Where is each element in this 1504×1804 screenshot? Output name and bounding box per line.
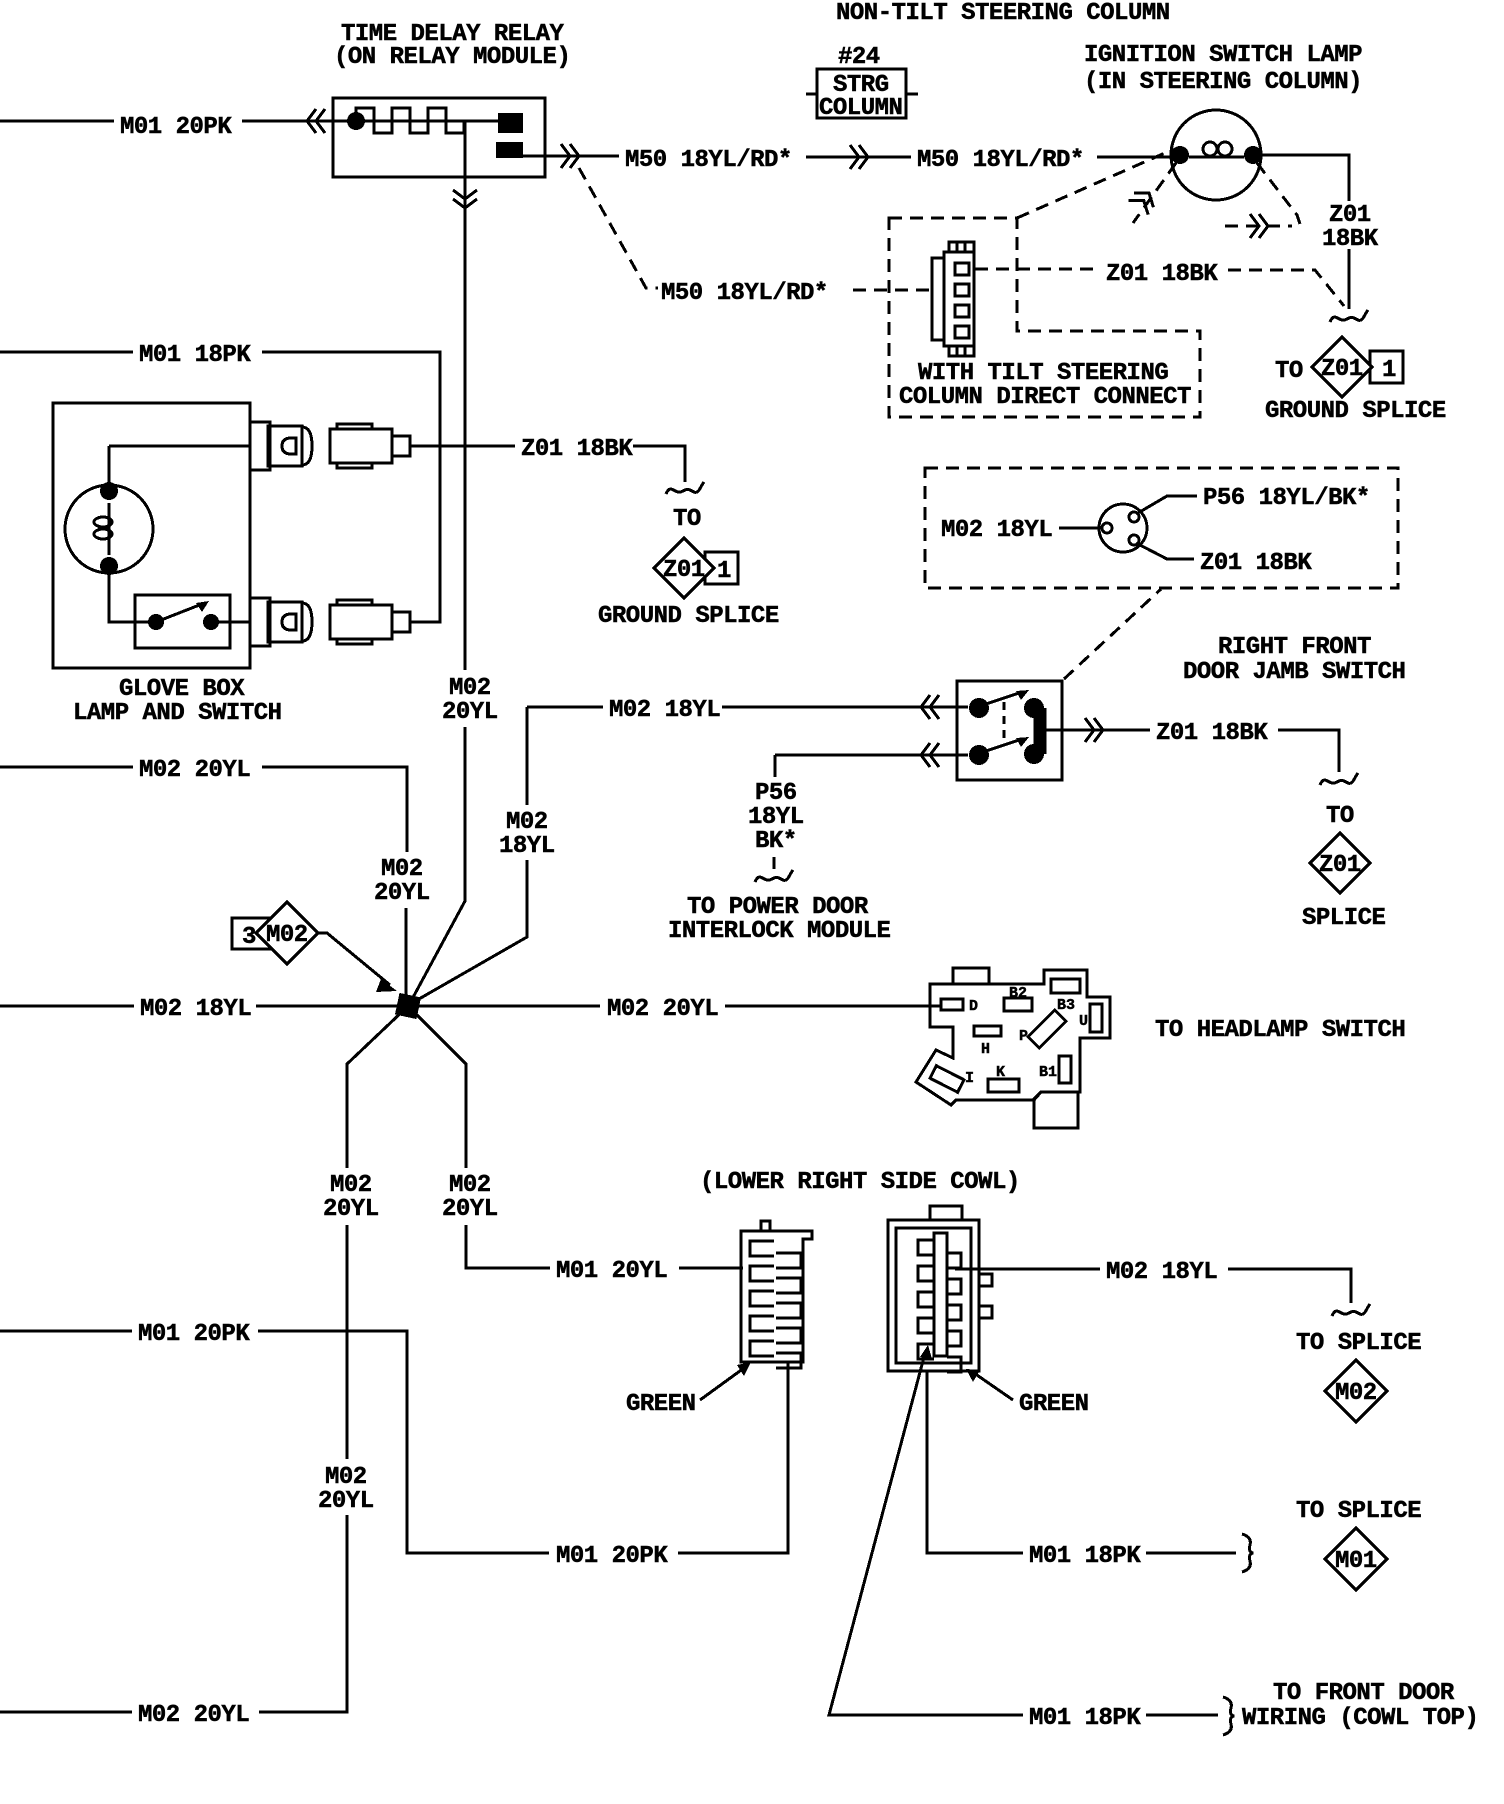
svg-text:M50 18YL/RD*: M50 18YL/RD*: [661, 280, 828, 307]
svg-text:B3: B3: [1057, 997, 1075, 1014]
svg-text:B1: B1: [1039, 1064, 1057, 1081]
svg-text:WITH TILT STEERING: WITH TILT STEERING: [918, 360, 1168, 387]
svg-text:3: 3: [242, 924, 256, 951]
svg-text:M02: M02: [449, 675, 491, 702]
svg-text:M02 18YL: M02 18YL: [609, 697, 720, 724]
svg-text:M01 18PK: M01 18PK: [1029, 1543, 1141, 1570]
svg-text:(IN STEERING COLUMN): (IN STEERING COLUMN): [1084, 69, 1362, 96]
svg-text:1: 1: [1382, 357, 1396, 384]
svg-text:20YL: 20YL: [442, 1196, 498, 1223]
svg-text:I: I: [965, 1070, 974, 1087]
svg-text:Z01 18BK: Z01 18BK: [1200, 550, 1312, 577]
svg-text:M02: M02: [266, 922, 308, 949]
svg-text:(LOWER RIGHT SIDE COWL): (LOWER RIGHT SIDE COWL): [700, 1169, 1020, 1196]
svg-text:Z01: Z01: [663, 557, 705, 584]
svg-text:18BK: 18BK: [1322, 226, 1379, 253]
svg-text:GROUND SPLICE: GROUND SPLICE: [1265, 398, 1446, 425]
svg-text:M01 20PK: M01 20PK: [120, 114, 232, 141]
svg-text:TO: TO: [1275, 358, 1303, 385]
svg-text:M01: M01: [1335, 1548, 1377, 1575]
svg-text:TO SPLICE: TO SPLICE: [1296, 1330, 1421, 1357]
svg-text:M02 20YL: M02 20YL: [138, 1702, 249, 1729]
svg-text:TO POWER DOOR: TO POWER DOOR: [687, 894, 869, 921]
svg-text:M02 18YL: M02 18YL: [140, 996, 251, 1023]
svg-text:P56: P56: [755, 780, 797, 807]
svg-text:M50 18YL/RD*: M50 18YL/RD*: [917, 147, 1084, 174]
svg-text:#24: #24: [838, 44, 880, 71]
svg-text:GLOVE BOX: GLOVE BOX: [119, 676, 245, 703]
svg-text:RIGHT FRONT: RIGHT FRONT: [1218, 634, 1371, 661]
svg-text:U: U: [1079, 1013, 1088, 1030]
svg-text:D: D: [969, 998, 978, 1015]
svg-text:20YL: 20YL: [318, 1488, 374, 1515]
svg-text:M01 20YL: M01 20YL: [556, 1258, 667, 1285]
svg-text:M02: M02: [325, 1464, 367, 1491]
svg-text:WIRING (COWL TOP): WIRING (COWL TOP): [1242, 1705, 1478, 1732]
svg-text:COLUMN DIRECT CONNECT: COLUMN DIRECT CONNECT: [899, 384, 1191, 411]
svg-text:H: H: [981, 1041, 990, 1058]
svg-text:IGNITION SWITCH LAMP: IGNITION SWITCH LAMP: [1084, 42, 1362, 69]
svg-text:20YL: 20YL: [323, 1196, 379, 1223]
svg-text:M02: M02: [381, 856, 423, 883]
svg-text:M02 18YL: M02 18YL: [1106, 1259, 1217, 1286]
svg-text:Z01: Z01: [1321, 356, 1363, 383]
svg-text:Z01: Z01: [1319, 852, 1361, 879]
svg-text:TO: TO: [1326, 803, 1354, 830]
svg-text:SPLICE: SPLICE: [1302, 905, 1386, 932]
svg-text:BK*: BK*: [755, 828, 797, 855]
svg-text:B2: B2: [1009, 985, 1027, 1002]
svg-text:M01 18PK: M01 18PK: [139, 342, 251, 369]
svg-text:18YL: 18YL: [499, 833, 555, 860]
svg-text:P56 18YL/BK*: P56 18YL/BK*: [1203, 485, 1370, 512]
svg-text:M01 20PK: M01 20PK: [556, 1543, 668, 1570]
svg-text:(ON RELAY MODULE): (ON RELAY MODULE): [334, 44, 570, 71]
svg-text:M01 20PK: M01 20PK: [138, 1321, 250, 1348]
svg-text:COLUMN: COLUMN: [819, 95, 902, 122]
svg-text:M02: M02: [506, 809, 548, 836]
svg-text:DOOR JAMB SWITCH: DOOR JAMB SWITCH: [1183, 659, 1405, 686]
svg-text:1: 1: [717, 558, 731, 585]
svg-text:M02 20YL: M02 20YL: [607, 996, 718, 1023]
svg-text:M02: M02: [449, 1172, 491, 1199]
svg-text:M02: M02: [1335, 1380, 1377, 1407]
svg-text:GREEN: GREEN: [1019, 1391, 1089, 1418]
svg-text:LAMP AND SWITCH: LAMP AND SWITCH: [73, 700, 282, 727]
svg-text:M02 20YL: M02 20YL: [139, 757, 250, 784]
svg-text:GREEN: GREEN: [626, 1391, 696, 1418]
svg-text:Z01: Z01: [1329, 202, 1371, 229]
svg-text:Z01 18BK: Z01 18BK: [1156, 720, 1268, 747]
svg-text:M02 18YL: M02 18YL: [941, 517, 1052, 544]
svg-text:20YL: 20YL: [374, 880, 430, 907]
svg-text:M01 18PK: M01 18PK: [1029, 1705, 1141, 1732]
svg-text:18YL: 18YL: [748, 804, 804, 831]
svg-text:NON-TILT STEERING COLUMN: NON-TILT STEERING COLUMN: [836, 0, 1170, 27]
svg-text:K: K: [996, 1064, 1005, 1081]
svg-text:TO HEADLAMP SWITCH: TO HEADLAMP SWITCH: [1155, 1017, 1405, 1044]
svg-text:Z01 18BK: Z01 18BK: [521, 436, 633, 463]
svg-text:P: P: [1019, 1028, 1028, 1045]
svg-text:TO FRONT DOOR: TO FRONT DOOR: [1273, 1680, 1455, 1707]
svg-text:M02: M02: [330, 1172, 372, 1199]
svg-text:M50 18YL/RD*: M50 18YL/RD*: [625, 147, 792, 174]
svg-text:GROUND SPLICE: GROUND SPLICE: [598, 603, 779, 630]
svg-text:TO SPLICE: TO SPLICE: [1296, 1498, 1421, 1525]
svg-text:TO: TO: [673, 506, 701, 533]
svg-text:20YL: 20YL: [442, 699, 498, 726]
svg-text:Z01 18BK: Z01 18BK: [1106, 261, 1218, 288]
svg-text:INTERLOCK MODULE: INTERLOCK MODULE: [668, 918, 891, 945]
